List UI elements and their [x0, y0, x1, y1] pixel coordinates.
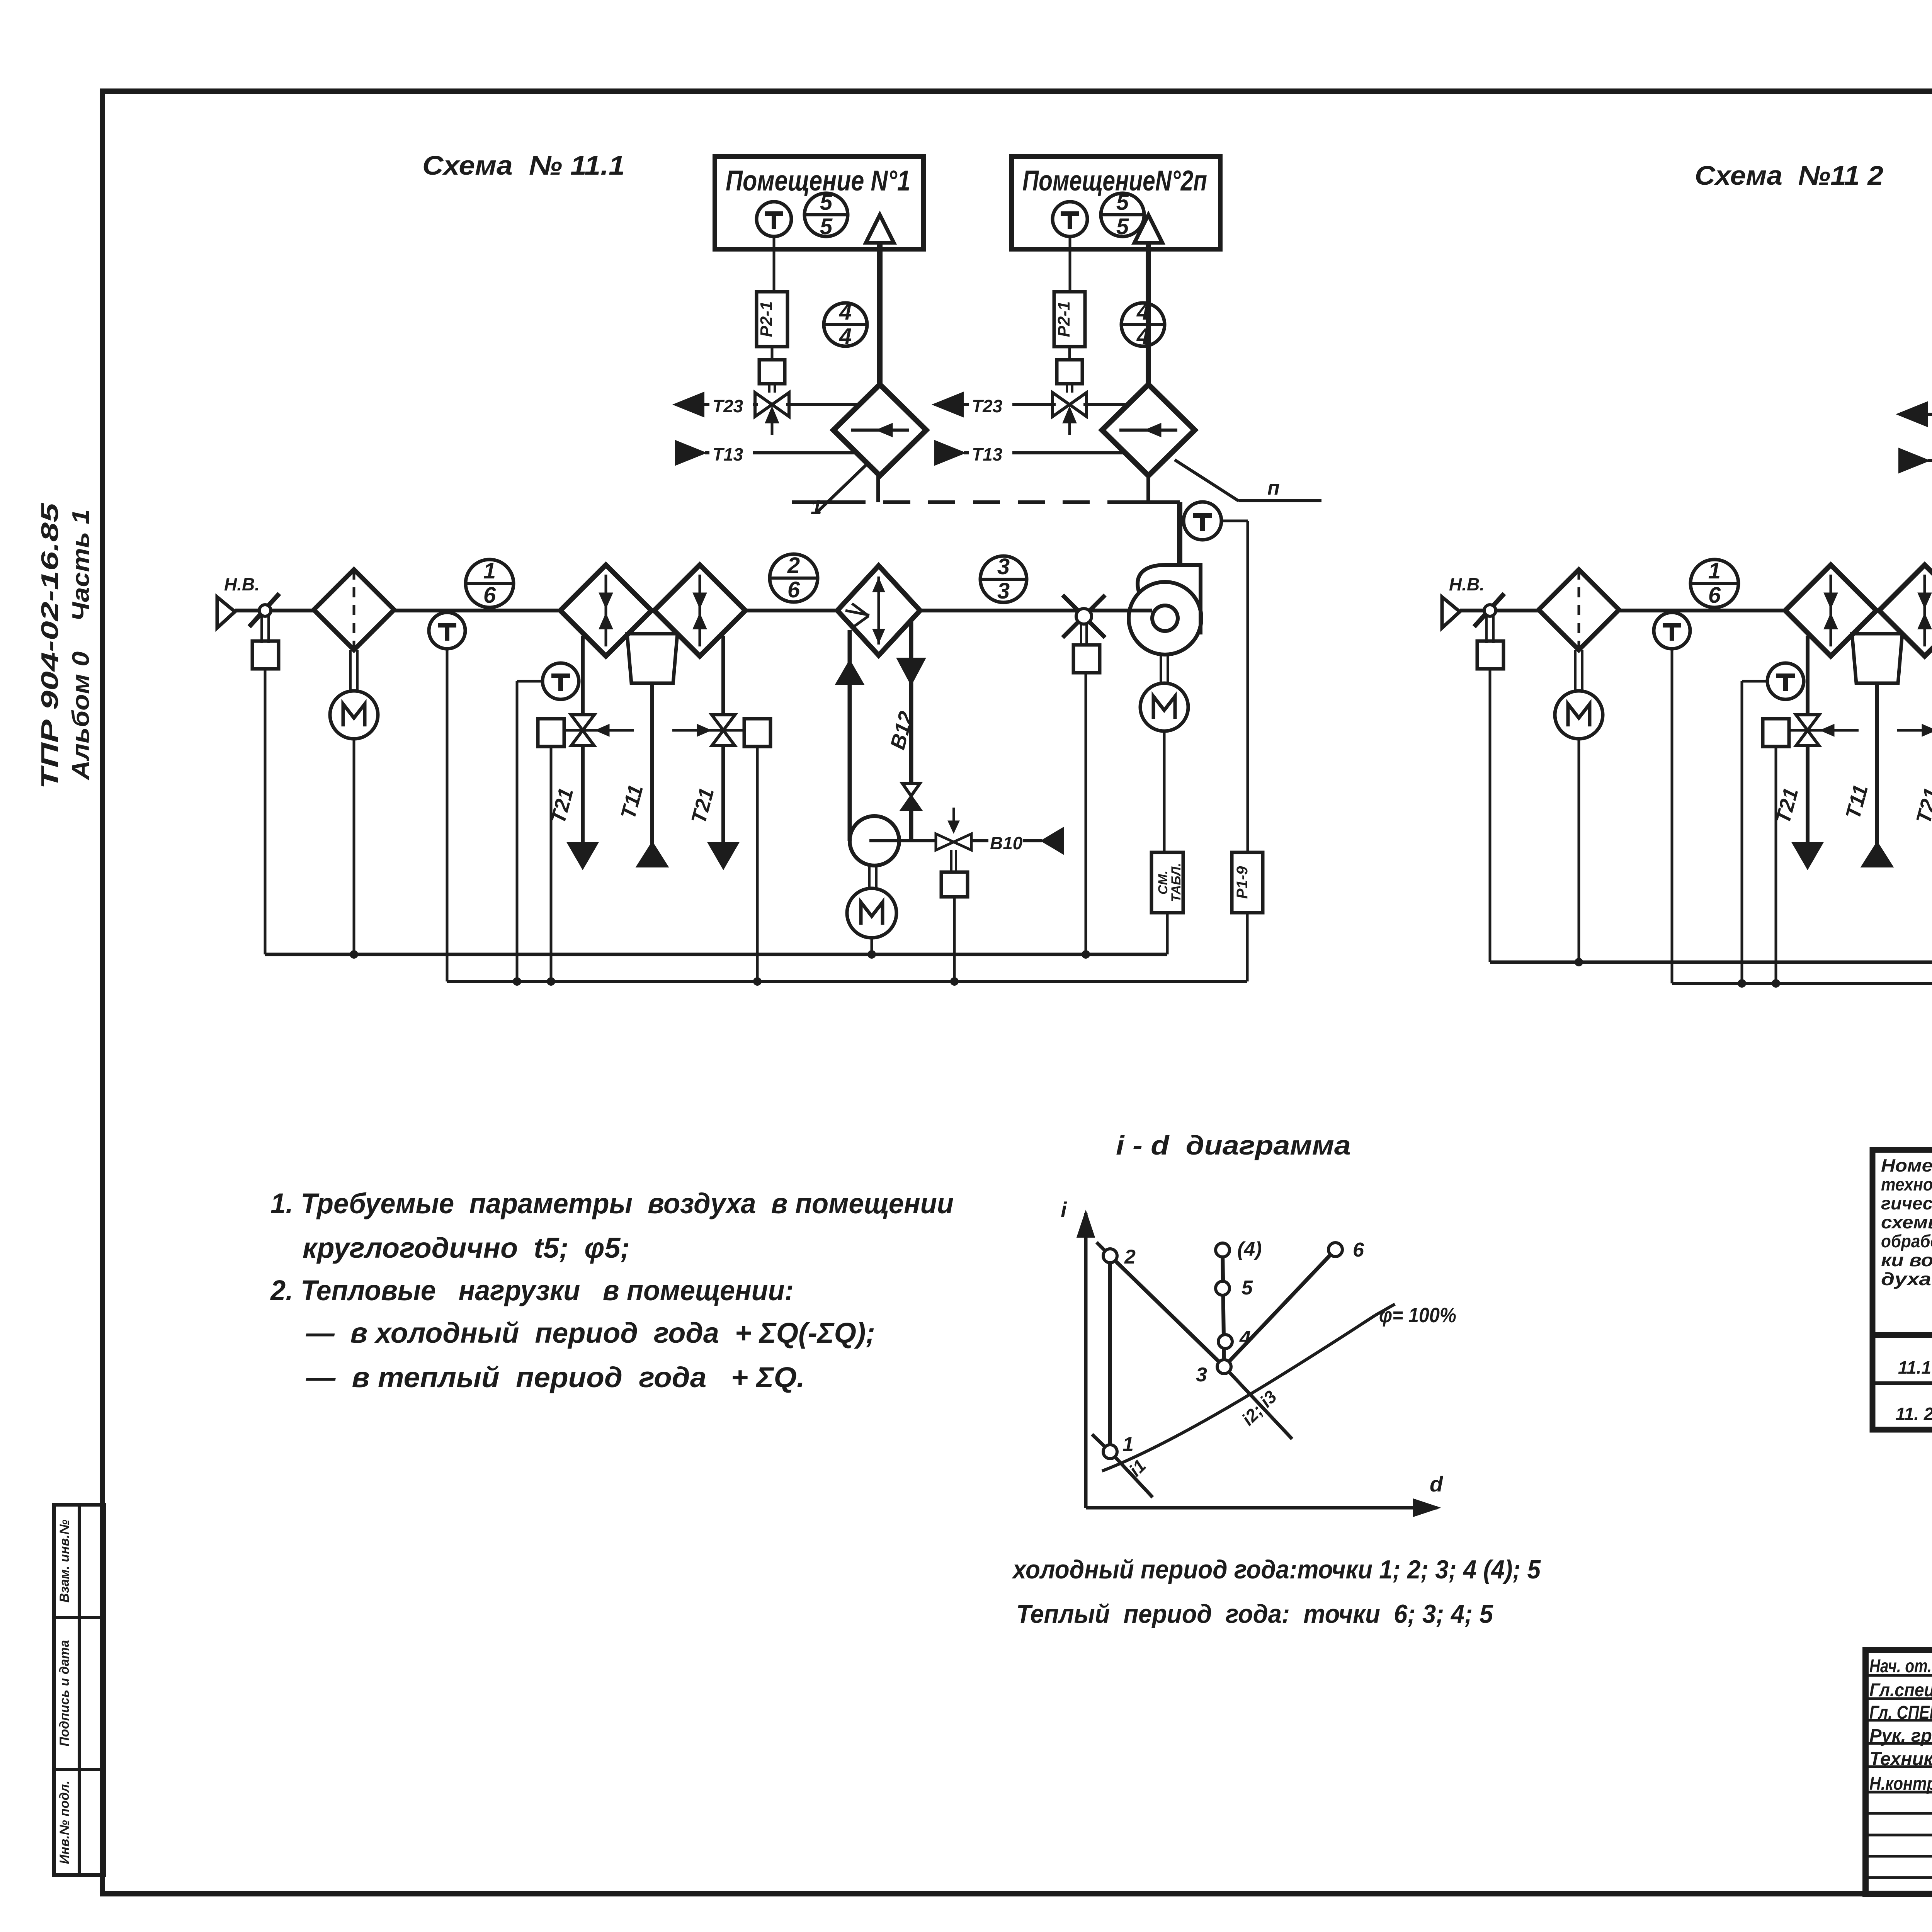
- svg-text:3: 3: [1196, 1364, 1207, 1386]
- svg-text:Инв.№ подл.: Инв.№ подл.: [57, 1781, 72, 1864]
- svg-text:обработ-: обработ-: [1881, 1231, 1932, 1251]
- svg-text:Т23: Т23: [972, 396, 1003, 416]
- svg-text:гической: гической: [1881, 1193, 1932, 1213]
- svg-text:5: 5: [1116, 214, 1129, 239]
- svg-text:11. 2: 11. 2: [1896, 1404, 1932, 1424]
- svg-text:4: 4: [1136, 299, 1149, 325]
- svg-text:3: 3: [997, 578, 1010, 604]
- svg-text:Нач. от.д: Нач. от.д: [1869, 1656, 1932, 1677]
- svg-text:4: 4: [839, 299, 852, 325]
- svg-text:5: 5: [820, 214, 833, 239]
- svg-text:круглогодично t5; φ5;: круглогодично t5; φ5;: [303, 1232, 630, 1264]
- svg-text:ТАБЛ.: ТАБЛ.: [1169, 863, 1184, 902]
- svg-text:Н.В.: Н.В.: [224, 574, 260, 594]
- svg-text:1. Требуемые параметры возду: 1. Требуемые параметры воздуха в помещен…: [270, 1187, 954, 1219]
- svg-text:Р1-9: Р1-9: [1234, 866, 1251, 899]
- svg-text:(4): (4): [1237, 1238, 1262, 1260]
- svg-text:6: 6: [1353, 1239, 1364, 1261]
- svg-text:6: 6: [483, 583, 496, 608]
- svg-text:холодный период года:точки 1;: холодный период года:точки 1; 2; 3; 4 (4…: [1012, 1555, 1541, 1584]
- svg-text:— в теплый период года +: — в теплый период года + ΣQ.: [306, 1361, 805, 1393]
- svg-text:Н.В.: Н.В.: [1449, 574, 1485, 594]
- svg-text:i: i: [1061, 1197, 1067, 1222]
- svg-text:СМ.: СМ.: [1156, 871, 1170, 895]
- svg-text:Техник: Техник: [1869, 1749, 1932, 1769]
- svg-text:В10: В10: [990, 833, 1023, 853]
- svg-text:Подпись и дата: Подпись и дата: [57, 1640, 72, 1747]
- svg-text:духа: духа: [1881, 1269, 1931, 1289]
- svg-text:ПомещениеN°2п: ПомещениеN°2п: [1022, 165, 1207, 197]
- svg-text:ТПР 904-02-16.85: ТПР 904-02-16.85: [37, 502, 63, 789]
- svg-text:Номер: Номер: [1881, 1155, 1932, 1175]
- svg-text:Гл.спец: Гл.спец: [1869, 1680, 1932, 1701]
- svg-text:Гл. СПЕЦ: Гл. СПЕЦ: [1869, 1702, 1932, 1723]
- svg-text:Т23: Т23: [713, 396, 743, 416]
- svg-text:Взам. инв.№: Взам. инв.№: [57, 1519, 72, 1602]
- svg-text:6: 6: [787, 577, 800, 602]
- svg-text:Помещение N°1: Помещение N°1: [726, 165, 910, 197]
- svg-text:Т13: Т13: [972, 444, 1003, 464]
- svg-text:Теплый период года: точки: Теплый период года: точки 6; 3; 4; 5: [1016, 1599, 1493, 1629]
- svg-text:— в холодный период года +: — в холодный период года + ΣQ(-ΣQ);: [306, 1317, 875, 1349]
- svg-text:i - d диаграмма: i - d диаграмма: [1116, 1130, 1351, 1160]
- svg-text:3: 3: [997, 554, 1010, 579]
- svg-text:4: 4: [1239, 1327, 1251, 1349]
- svg-text:5: 5: [820, 190, 833, 215]
- svg-text:Схема №11 2: Схема №11 2: [1695, 160, 1883, 190]
- svg-text:φ= 100%: φ= 100%: [1379, 1304, 1456, 1327]
- svg-text:1: 1: [811, 496, 822, 519]
- svg-text:2: 2: [787, 553, 800, 578]
- svg-text:Рук. гр.: Рук. гр.: [1869, 1726, 1932, 1746]
- svg-text:Р2-1: Р2-1: [757, 301, 776, 337]
- svg-text:1: 1: [1708, 558, 1721, 583]
- svg-text:Альбом 0 Часть 1: Альбом 0 Часть 1: [68, 509, 94, 781]
- svg-text:техноло-.: техноло-.: [1881, 1174, 1932, 1194]
- svg-text:Н.контр.: Н.контр.: [1869, 1774, 1932, 1794]
- svg-text:Р2-1: Р2-1: [1054, 301, 1073, 337]
- svg-text:2. Тепловые нагрузки в пом: 2. Тепловые нагрузки в помещении:: [270, 1274, 794, 1306]
- svg-text:6: 6: [1708, 583, 1721, 608]
- svg-text:Т13: Т13: [713, 444, 743, 464]
- svg-text:ки воз-: ки воз-: [1881, 1250, 1932, 1270]
- svg-text:d: d: [1430, 1472, 1444, 1496]
- svg-text:1: 1: [483, 558, 496, 583]
- svg-text:4: 4: [1136, 324, 1149, 349]
- svg-text:схемы: схемы: [1881, 1212, 1932, 1232]
- svg-text:5: 5: [1242, 1277, 1253, 1299]
- svg-text:Схема № 11.1: Схема № 11.1: [422, 150, 625, 180]
- svg-text:11.1: 11.1: [1898, 1357, 1931, 1378]
- svg-text:5: 5: [1116, 190, 1129, 215]
- svg-text:п: п: [1267, 477, 1280, 499]
- svg-text:1: 1: [1122, 1433, 1134, 1456]
- svg-text:4: 4: [839, 324, 852, 349]
- svg-text:2: 2: [1124, 1246, 1136, 1268]
